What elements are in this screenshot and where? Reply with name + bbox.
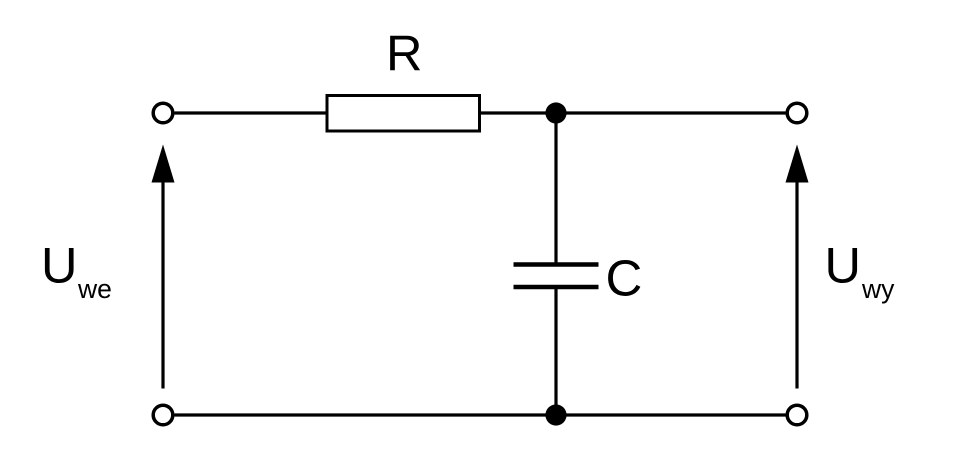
svg-text:wy: wy	[861, 274, 895, 304]
wire top-left: input terminal to resistor	[175, 111, 326, 114]
wire bottom-left: input terminal to bottom junction	[175, 413, 557, 416]
label R	[386, 25, 422, 82]
wire: top junction to output terminal	[556, 111, 786, 114]
junction node top (output node)	[545, 102, 566, 123]
svg-text:U: U	[41, 237, 77, 294]
terminal output bottom-right	[787, 405, 807, 425]
arrow Uwy (output voltage, pointing up)	[786, 145, 809, 389]
label Uwy	[825, 237, 896, 305]
terminal input top-left	[153, 103, 173, 123]
wire: top junction down to capacitor top plate	[554, 113, 557, 265]
svg-text:C: C	[606, 250, 643, 307]
arrow Uwe (input voltage, pointing up)	[152, 145, 175, 389]
resistor R	[327, 96, 480, 132]
label C	[606, 250, 643, 307]
label Uwe	[41, 237, 112, 305]
svg-text:we: we	[77, 274, 112, 304]
wire: resistor to top junction	[481, 111, 556, 114]
svg-text:R: R	[386, 25, 422, 82]
junction node bottom (ground node)	[545, 404, 566, 425]
capacitor C	[514, 265, 599, 288]
wire: capacitor bottom plate down to bottom junction	[554, 287, 557, 415]
svg-text:U: U	[825, 237, 861, 294]
wire bottom-right: bottom junction to output terminal	[556, 413, 786, 416]
terminal output top-right	[787, 103, 807, 123]
terminal input bottom-left	[153, 405, 173, 425]
